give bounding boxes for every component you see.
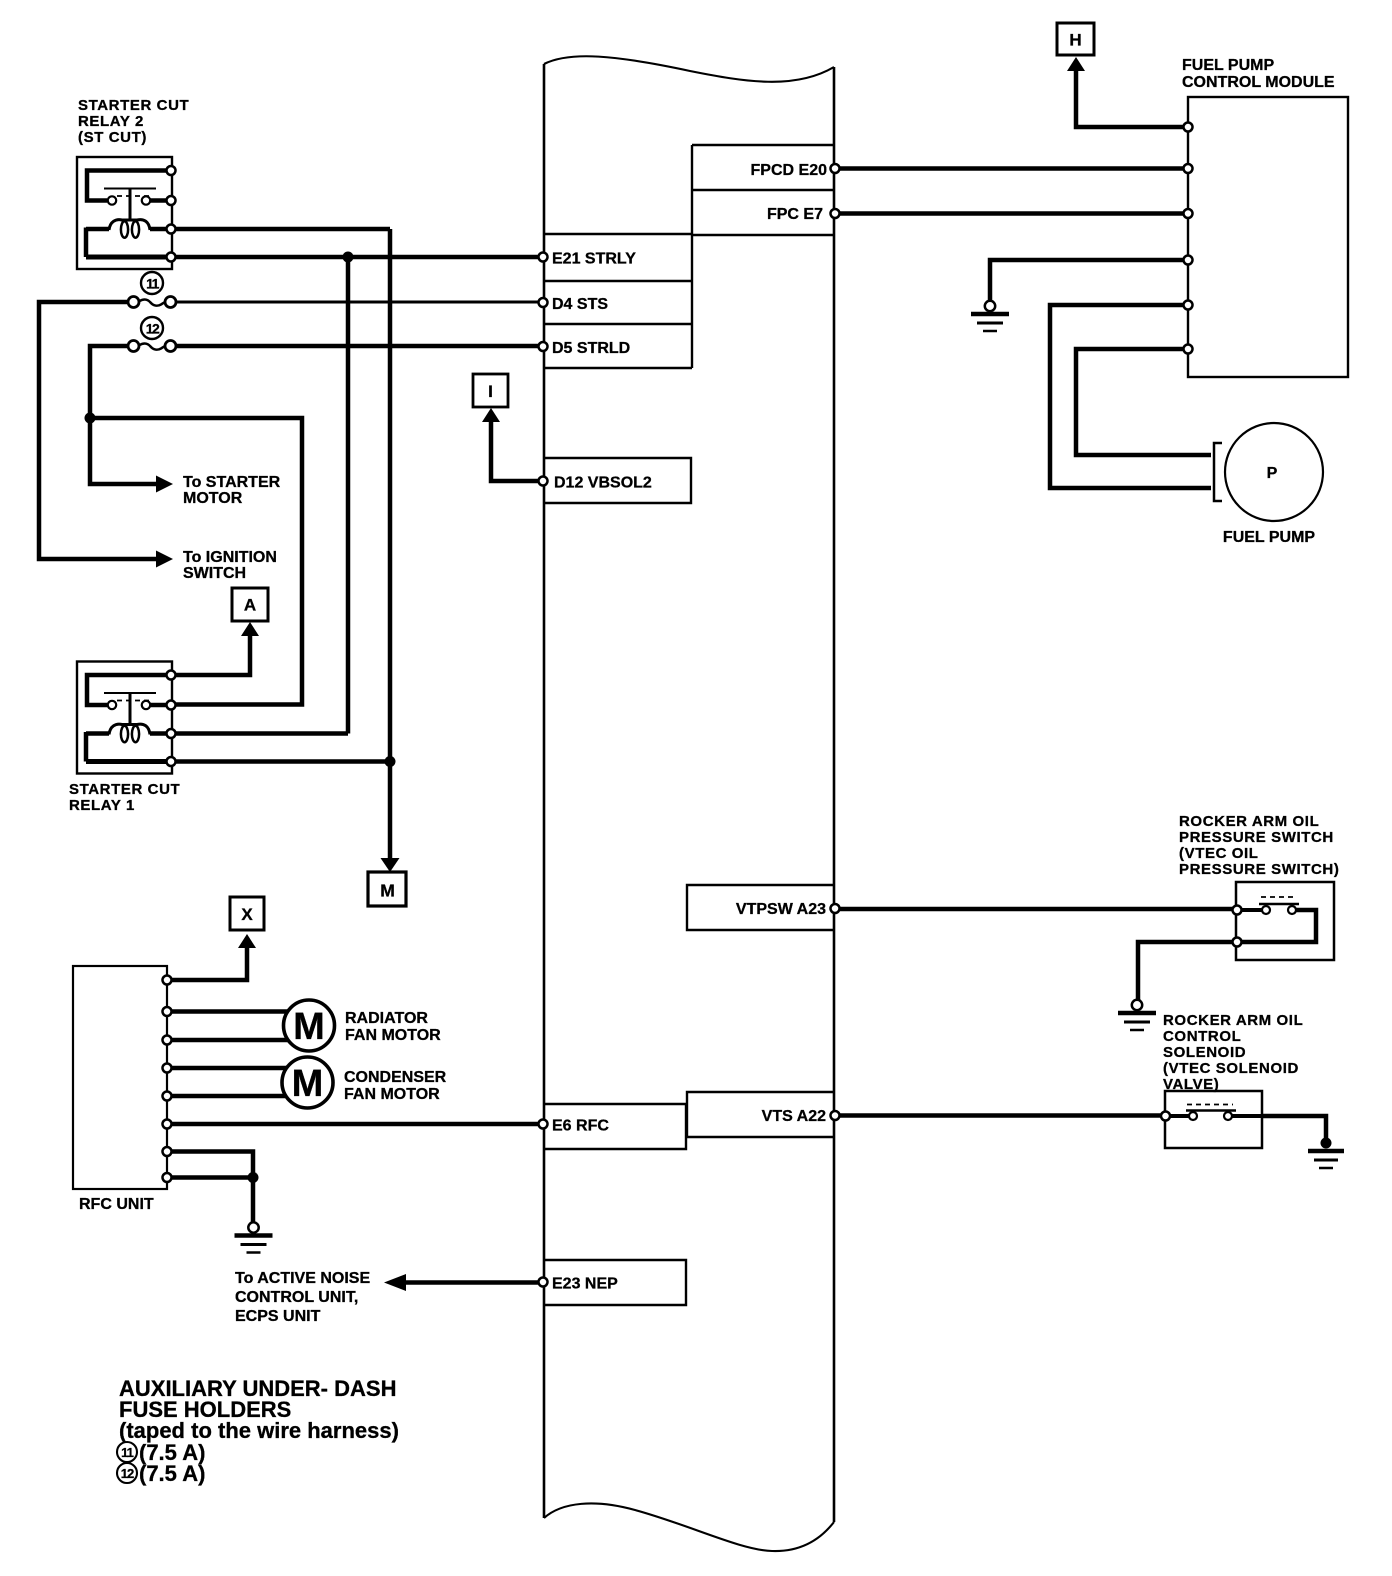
connector circle FPCD E20 <box>831 164 840 173</box>
connector circle D12 VBSOL2 <box>539 477 548 486</box>
wire VTPSW A23 to pressure switch <box>839 907 1233 912</box>
connector circle VTS A22 <box>831 1111 840 1120</box>
RFC unit terminal circles <box>163 976 172 1183</box>
svg-text:FPCD E20: FPCD E20 <box>751 162 828 179</box>
svg-text:A: A <box>244 596 256 615</box>
connector box A <box>232 588 268 621</box>
wire RFC t1 to X arrow <box>172 947 248 980</box>
wire FPCD E20 to module <box>839 166 1184 171</box>
relay STARTER CUT RELAY 1 <box>77 662 176 774</box>
svg-text:VTS A22: VTS A22 <box>762 1108 826 1125</box>
wire RFC t5 to condenser fan motor <box>172 1094 289 1099</box>
svg-text:To STARTERMOTOR: To STARTERMOTOR <box>183 474 281 507</box>
RFC unit box <box>73 966 167 1189</box>
wire D12 VBSOL2 to I arrow <box>491 421 543 481</box>
label box FPCD/FPC ladder <box>692 145 834 235</box>
junction RFC ground <box>248 1172 259 1183</box>
connector box I <box>473 374 508 407</box>
connector circle E21 STRLY <box>539 253 548 262</box>
connector circle FPC E7 <box>831 209 840 218</box>
arrow into M box <box>381 858 400 872</box>
rocker arm oil pressure switch <box>1233 882 1335 960</box>
module pin circles <box>1184 123 1193 354</box>
svg-text:M: M <box>293 1006 325 1048</box>
svg-text:D4 STS: D4 STS <box>552 296 608 313</box>
wire FPC E7 to module <box>839 211 1184 216</box>
fuse 12 circled label <box>141 317 163 339</box>
arrow to active noise control unit <box>384 1274 406 1291</box>
connector box H <box>1057 23 1094 55</box>
wire relay2 terminal4 to E21 STRLY <box>176 255 541 260</box>
svg-text:ROCKER ARM OILCONTROLSOLENOID(: ROCKER ARM OILCONTROLSOLENOID(VTEC SOLEN… <box>1163 1012 1303 1093</box>
junction E21 wire <box>343 252 354 263</box>
svg-text:X: X <box>241 905 253 924</box>
arrow into X box <box>238 934 256 948</box>
svg-text:AUXILIARY UNDER- DASHFUSE HOLD: AUXILIARY UNDER- DASHFUSE HOLDERS(taped … <box>119 1376 399 1443</box>
ground pressure switch <box>1118 1000 1156 1030</box>
wire relay1 terminal3 <box>176 731 349 736</box>
connector circle D4 STS <box>539 298 548 307</box>
wire RFC t8 to ground <box>172 1178 254 1224</box>
label box VTPSW A23 <box>687 885 834 930</box>
rocker arm oil control solenoid valve <box>1161 1091 1262 1148</box>
wire solenoid to ground <box>1262 1116 1326 1138</box>
label box D12 VBSOL2 <box>544 458 691 503</box>
wire RFC t4 to condenser fan motor <box>172 1066 289 1071</box>
wire junction to relay1 terminal2 <box>90 418 302 705</box>
connector circle E23 NEP <box>539 1278 548 1287</box>
wire fuse11 to D4 STS <box>177 301 541 304</box>
svg-text:D12 VBSOL2: D12 VBSOL2 <box>554 475 652 492</box>
ground solenoid (filled) <box>1308 1138 1344 1169</box>
svg-text:M: M <box>292 1063 324 1105</box>
wire relay1 terminal1 to A arrow <box>176 635 251 675</box>
svg-text:D5 STRLD: D5 STRLD <box>552 340 630 357</box>
connector circle VTPSW A23 <box>831 904 840 913</box>
connector circle E6 RFC <box>539 1120 548 1129</box>
svg-text:FUEL PUMP: FUEL PUMP <box>1223 529 1315 546</box>
text fuse 11 rating <box>117 1440 205 1465</box>
arrow to ignition switch <box>156 551 173 568</box>
radiator fan motor M <box>284 1000 335 1051</box>
fuse 12 <box>128 341 176 352</box>
svg-text:ROCKER ARM OILPRESSURE SWITCH(: ROCKER ARM OILPRESSURE SWITCH(VTEC OILPR… <box>1179 813 1339 878</box>
svg-text:(7.5 A): (7.5 A) <box>139 1461 205 1486</box>
svg-text:VTPSW A23: VTPSW A23 <box>736 901 826 918</box>
wire relay2 terminal3 to M vertical <box>176 227 391 232</box>
svg-text:E23 NEP: E23 NEP <box>552 1276 618 1293</box>
svg-text:STARTER CUTRELAY 2(ST CUT): STARTER CUTRELAY 2(ST CUT) <box>78 97 189 146</box>
label box E6 RFC <box>544 1104 686 1149</box>
wire junction down to relay1 terminal3 <box>346 257 351 734</box>
fuse 11 <box>128 297 176 308</box>
arrow to starter motor <box>156 476 173 493</box>
wire RFC t7 down <box>172 1152 254 1178</box>
svg-text:E21 STRLY: E21 STRLY <box>552 251 636 268</box>
wire fuse12 to D5 STRLD <box>177 344 541 349</box>
ground RFC unit <box>235 1222 273 1252</box>
wire fuse11 left to ignition switch <box>39 302 156 559</box>
wire RFC t3 to radiator fan motor <box>172 1038 289 1043</box>
svg-text:RFC UNIT: RFC UNIT <box>79 1196 154 1213</box>
arrow into A box <box>241 622 259 636</box>
svg-text:To IGNITIONSWITCH: To IGNITIONSWITCH <box>183 549 277 582</box>
arrow into I box <box>482 408 500 422</box>
svg-text:RADIATORFAN MOTOR: RADIATORFAN MOTOR <box>345 1010 441 1044</box>
svg-text:11: 11 <box>121 1445 134 1460</box>
svg-text:E6 RFC: E6 RFC <box>552 1118 609 1135</box>
text fuse 12 rating <box>117 1461 205 1486</box>
svg-text:M: M <box>380 881 395 901</box>
wire vertical to M arrow <box>388 229 393 858</box>
svg-text:P: P <box>1267 465 1278 482</box>
wire module pin6 to fuel pump upper <box>1076 349 1211 455</box>
wire module pin1 to H arrow <box>1076 70 1188 127</box>
label box VTS A22 <box>687 1092 834 1137</box>
fuel pump bracket <box>1214 443 1222 501</box>
svg-text:FUEL PUMPCONTROL MODULE: FUEL PUMPCONTROL MODULE <box>1182 57 1335 91</box>
svg-text:11: 11 <box>146 276 160 292</box>
wire RFC t6 to E6 RFC <box>172 1122 540 1127</box>
fuel pump control module box <box>1188 97 1348 377</box>
connector box X <box>230 897 264 930</box>
svg-text:To ACTIVE NOISECONTROL UNIT,EC: To ACTIVE NOISECONTROL UNIT,ECPS UNIT <box>235 1270 370 1325</box>
ground fuel pump control module <box>971 301 1009 331</box>
condenser fan motor M <box>282 1057 333 1108</box>
wire pressure switch to ground <box>1138 942 1233 1001</box>
svg-text:FPC E7: FPC E7 <box>767 206 823 223</box>
svg-text:12: 12 <box>146 321 160 337</box>
wire module pin5 to fuel pump lower <box>1050 305 1211 488</box>
wire E23 NEP to active noise arrow <box>406 1280 539 1285</box>
relay STARTER CUT RELAY 2 <box>77 157 176 269</box>
svg-text:H: H <box>1069 31 1081 50</box>
junction relay1 terminal4 <box>385 756 396 767</box>
wire harness band outline <box>544 56 834 1551</box>
arrow into H box <box>1067 57 1085 71</box>
wire fuse12 left to starter motor <box>90 346 156 484</box>
connector box M <box>368 872 406 906</box>
wire RFC t2 to radiator fan motor <box>172 1009 289 1014</box>
svg-text:CONDENSERFAN MOTOR: CONDENSERFAN MOTOR <box>344 1069 447 1103</box>
svg-text:STARTER CUTRELAY 1: STARTER CUTRELAY 1 <box>69 781 180 814</box>
svg-text:I: I <box>488 382 493 401</box>
junction starter branch <box>85 413 96 424</box>
svg-text:12: 12 <box>121 1466 134 1481</box>
label box E23 NEP <box>544 1260 686 1305</box>
label box E21/D4/D5 ladder <box>544 234 692 368</box>
fuel pump motor P <box>1225 423 1323 521</box>
connector circle D5 STRLD <box>539 342 548 351</box>
wire relay1 terminal4 <box>176 759 391 764</box>
wire module pin4 to ground <box>990 260 1184 301</box>
wire VTS A22 to solenoid <box>839 1113 1165 1118</box>
fuse 11 circled label <box>141 272 163 294</box>
